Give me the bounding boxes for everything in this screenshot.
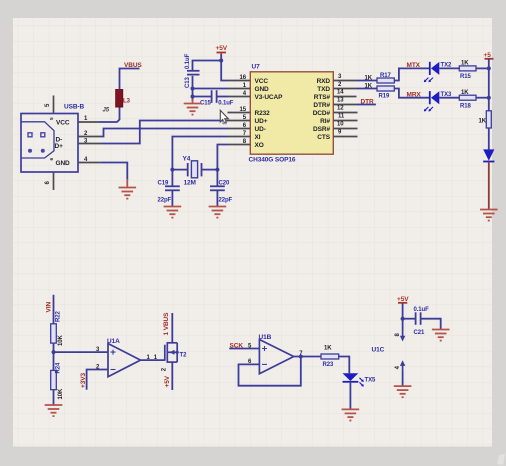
capacitor C13 (187, 71, 200, 75)
svg-text:22pF: 22pF (219, 198, 233, 204)
svg-text:15: 15 (240, 107, 247, 113)
svg-text:VBUS: VBUS (124, 62, 142, 69)
resistor R15 (459, 66, 476, 71)
wire R24 to ground (53, 390, 55, 405)
svg-text:1K: 1K (479, 118, 487, 124)
resistor R19 (377, 86, 394, 91)
wire TX3 to R18 (439, 97, 459, 99)
junction crystal right (215, 168, 219, 172)
U1C pin 8 power pin (395, 330, 406, 342)
svg-text:USB-B: USB-B (64, 104, 84, 111)
svg-text:R22: R22 (56, 311, 62, 322)
wire GND row to pin1 (193, 88, 228, 90)
svg-text:22pF: 22pF (158, 198, 172, 204)
wire RXD pin3 to R17 (357, 80, 378, 82)
svg-text:GND: GND (255, 86, 270, 93)
svg-text:1 VBUS: 1 VBUS (163, 312, 170, 336)
wire C19 to ground (171, 190, 173, 206)
ground under USB (119, 179, 137, 199)
IC U7 CH340G body (250, 72, 333, 154)
net label DTR on pin13 (357, 104, 376, 106)
ground under C19 (164, 207, 182, 218)
svg-text:10K: 10K (58, 335, 64, 346)
power +5 top right (484, 52, 494, 59)
wire GND pin4 (100, 163, 127, 181)
pin 6 shield bottom (53, 172, 55, 190)
op-amp U1B (259, 340, 293, 374)
svg-text:RTS#: RTS# (314, 94, 331, 101)
ground under R24 (45, 405, 63, 416)
svg-text:10K: 10K (58, 388, 64, 399)
ground under C13 (184, 99, 202, 115)
svg-text:C21: C21 (414, 330, 425, 336)
svg-text:J5: J5 (103, 108, 110, 114)
LED TX2 (424, 62, 440, 82)
+5 rail vertical (488, 59, 490, 111)
pin 1 stub (78, 121, 99, 123)
wire R22 to junction (53, 343, 55, 370)
resistor R17 (377, 78, 394, 83)
wire diode to ground (488, 162, 490, 210)
svg-text:DCD#: DCD# (313, 110, 331, 117)
resistor 1K vertical on rail (486, 111, 491, 128)
svg-text:UD+: UD+ (255, 118, 268, 125)
svg-text:6: 6 (49, 158, 55, 161)
svg-text:DSR#: DSR# (313, 126, 330, 133)
pin 2 stub (78, 136, 101, 138)
crystal stub wires (172, 169, 187, 171)
svg-text:CTS: CTS (317, 134, 330, 141)
U1B output wire to R23 (294, 356, 321, 358)
capacitor C20 (210, 186, 225, 190)
svg-text:+5V: +5V (216, 45, 228, 52)
wire XI pin7 to crystal (172, 137, 227, 187)
svg-text:DTR: DTR (361, 98, 374, 105)
wire +5V to VCC pin16 (221, 54, 227, 81)
ground bottom right rail (480, 210, 498, 221)
svg-text:C20: C20 (219, 181, 230, 187)
pin names inside USB-B (49, 117, 70, 167)
resistor R23 (321, 354, 339, 359)
wire R17 to MTX row (394, 68, 429, 80)
wire U1A out to T2 gate (141, 359, 165, 361)
junction rail/R18 (487, 96, 491, 100)
U1B pin6 feedback loop (239, 357, 301, 386)
svg-text:C19: C19 (158, 181, 169, 187)
svg-text:R23: R23 (323, 362, 334, 368)
junction C15 branch (191, 95, 195, 99)
junction crystal left (170, 168, 174, 172)
svg-text:L3: L3 (123, 99, 131, 105)
wire D- to UD- (101, 129, 228, 137)
svg-text:GND: GND (56, 160, 71, 167)
wire to C15 (193, 96, 212, 98)
ferrite bead L3 (116, 90, 123, 108)
svg-text:R24: R24 (56, 362, 62, 373)
right pin numbers (337, 74, 345, 136)
junction feedback/output (299, 355, 303, 359)
svg-text:TX5: TX5 (365, 377, 376, 383)
svg-text:R232: R232 (255, 110, 271, 117)
wire L3 to VBUS (120, 69, 140, 90)
svg-text:MTX: MTX (407, 62, 421, 69)
svg-text:TXD: TXD (317, 86, 330, 93)
T2 source wire to +5V (171, 362, 173, 390)
ground right of C21 (432, 330, 450, 341)
USB-B connector J5 body (21, 114, 78, 173)
svg-text:10: 10 (337, 122, 344, 128)
svg-text:CH340G SOP16: CH340G SOP16 (249, 157, 296, 164)
svg-text:1K: 1K (324, 345, 332, 351)
wire R23 to LED TX5 (339, 357, 350, 374)
svg-text:40: 40 (222, 121, 228, 127)
pin 4 stub (78, 162, 100, 164)
svg-text:11: 11 (338, 114, 345, 120)
svg-text:1K: 1K (461, 90, 469, 96)
svg-text:+3V3: +3V3 (80, 373, 87, 388)
svg-text:1K: 1K (365, 84, 373, 90)
wire SCK to U1B pin5 (229, 348, 259, 350)
pin numbers 1-4 (84, 116, 88, 163)
svg-text:16: 16 (240, 75, 247, 81)
svg-text:RI#: RI# (320, 118, 330, 125)
watermark bottom-right (497, 454, 505, 465)
wire XO pin8 to crystal (217, 145, 227, 187)
svg-text:Y4: Y4 (183, 156, 191, 163)
wire TX2 to R15 (439, 67, 459, 69)
svg-text:C15: C15 (200, 101, 211, 107)
svg-text:U1C: U1C (372, 347, 385, 354)
wire TX5 to ground (349, 382, 351, 409)
svg-text:U7: U7 (252, 64, 261, 71)
svg-text:0.1uF: 0.1uF (218, 101, 234, 107)
right pin stubs 3,2,14,13,12,11,10,9 (333, 81, 357, 137)
pin 3 stub (78, 143, 101, 145)
svg-text:MRX: MRX (407, 91, 422, 98)
wire to C13 top (193, 61, 222, 72)
svg-text:0.1uF: 0.1uF (414, 307, 430, 313)
power +5V above U1C (397, 296, 409, 306)
svg-text:5: 5 (49, 117, 55, 120)
svg-text:RXD: RXD (317, 78, 331, 85)
svg-text:+5V: +5V (164, 375, 171, 387)
left pin numbers (240, 75, 247, 145)
svg-text:R18: R18 (460, 103, 471, 109)
junction C21 branch (401, 317, 405, 321)
junction rail/R15 (487, 66, 491, 70)
wire VCC pin1 to L3 (99, 107, 120, 122)
svg-text:R19: R19 (379, 94, 390, 100)
wire C15 to V3-UCAP pin4 (217, 96, 228, 98)
svg-text:DTR#: DTR# (313, 102, 330, 109)
ground under TX5 (342, 409, 360, 420)
wire R15 to +5 rail (476, 67, 489, 69)
svg-text:VCC: VCC (56, 120, 70, 127)
pin 5 shield top (53, 96, 55, 114)
capacitor C19 (165, 186, 180, 190)
junction at +5V branch (219, 59, 223, 63)
svg-text:R17: R17 (380, 73, 391, 79)
left pin names (255, 78, 284, 149)
ground under U1C pin4 (394, 386, 412, 397)
resistor R18 (459, 95, 476, 100)
svg-text:D+: D+ (55, 143, 64, 150)
svg-text:U1B: U1B (259, 334, 272, 341)
MOSFET T2 (165, 343, 177, 363)
svg-text:V3-UCAP: V3-UCAP (255, 94, 284, 101)
junction divider (52, 350, 56, 354)
svg-text:13: 13 (337, 98, 344, 104)
resistor R24 (51, 370, 57, 389)
svg-text:VCC: VCC (255, 78, 269, 85)
ground under C20 (209, 207, 227, 218)
wire D+ to UD+ (101, 121, 228, 144)
wire R18 to rail (476, 97, 489, 99)
wire C13 bottom to GND pin1 row (192, 76, 194, 101)
svg-text:R15: R15 (460, 74, 471, 80)
capacitor C15 (212, 90, 217, 103)
svg-text:0.1uF: 0.1uF (185, 53, 191, 69)
LED TX3 (424, 91, 440, 111)
capacitor C21 (416, 312, 421, 325)
op-amp U1A (108, 344, 141, 377)
wire R19 to MRX row (394, 89, 429, 98)
LED TX5 (343, 373, 364, 386)
right pin names (313, 78, 331, 141)
crystal Y4 (188, 161, 202, 178)
left pin stubs 16,1,4,15,5,6,7,8 (228, 81, 251, 145)
power +5V above U7 (216, 45, 228, 56)
svg-text:12M: 12M (184, 180, 196, 187)
pin 2 wire to +3V3 (87, 370, 108, 390)
svg-text:T2: T2 (180, 353, 188, 359)
wire resistor to diode (488, 128, 490, 149)
svg-text:VIN: VIN (46, 302, 53, 313)
svg-text:C13: C13 (185, 77, 191, 88)
wire TXD pin2 to R19 (357, 88, 378, 90)
junction C13/GND (191, 87, 195, 91)
diode D (zener) on rail (483, 149, 494, 161)
wire +5V to junction (402, 304, 404, 331)
wire junction to U1A pin3 (54, 351, 109, 353)
wire C20 to ground (216, 190, 218, 206)
svg-text:1K: 1K (461, 61, 469, 67)
svg-text:UD-: UD- (255, 126, 266, 133)
svg-text:14: 14 (337, 90, 344, 96)
wire pin4 to ground (402, 371, 404, 386)
U1C pin 4 power pin (395, 360, 406, 371)
wire C21 to ground (421, 319, 441, 329)
svg-text:XO: XO (255, 142, 264, 149)
svg-text:XI: XI (255, 134, 261, 141)
svg-text:12: 12 (337, 106, 344, 112)
svg-text:U1A: U1A (107, 338, 120, 345)
resistor R22 (51, 324, 57, 343)
wire junction to C21 (403, 318, 416, 320)
wire VIN to R22 (53, 295, 55, 324)
mouse cursor (220, 110, 228, 123)
T2 drain wire to 1 VBUS (171, 313, 173, 343)
svg-text:1K: 1K (365, 76, 373, 82)
